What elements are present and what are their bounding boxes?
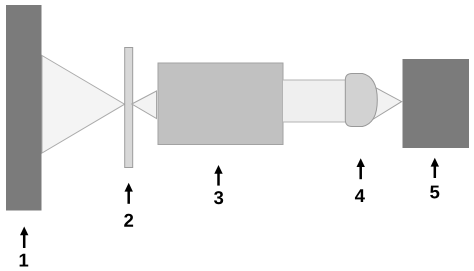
arrow 3	[214, 165, 222, 186]
light source 1	[6, 5, 42, 211]
label 4	[355, 189, 365, 202]
slit plate 2	[125, 48, 133, 168]
focused cone to detector	[372, 86, 402, 120]
label 1	[20, 254, 29, 267]
label 3	[214, 191, 223, 204]
instrument body 3	[158, 63, 283, 145]
arrow 4	[357, 158, 365, 179]
light cone from source to slit	[42, 56, 125, 154]
diverging cone from slit	[132, 91, 157, 119]
arrow 1	[20, 227, 28, 249]
label 2	[124, 214, 133, 227]
label 5	[430, 186, 439, 199]
arrow 5	[431, 158, 439, 178]
lens 4	[345, 74, 377, 127]
collimated beam	[283, 80, 347, 122]
arrow 2	[125, 183, 133, 204]
detector 5	[403, 59, 470, 148]
